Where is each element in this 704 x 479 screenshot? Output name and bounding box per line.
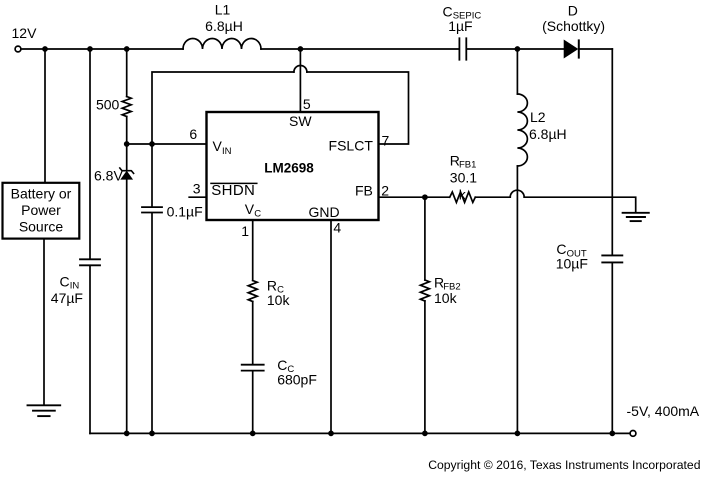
svg-text:2: 2 [381, 182, 389, 198]
label RC [267, 277, 284, 295]
value label 6.8uH for L1 [205, 18, 243, 34]
diode D (Schottky) [564, 40, 579, 57]
label (Schottky) [542, 18, 605, 34]
node label 12V [12, 25, 38, 41]
wire: hop to ground corner crossing output branch [524, 197, 636, 212]
svg-text:5: 5 [303, 96, 311, 112]
label CSEPIC [443, 4, 482, 22]
wire: top rail from diode cathode to output corner [580, 48, 613, 50]
svg-text:V: V [213, 138, 223, 154]
svg-text:1µF: 1µF [448, 18, 472, 34]
svg-text:C: C [443, 4, 453, 20]
wire: top rail junction down to L2 [516, 49, 518, 94]
pin name VIN [213, 138, 232, 157]
label L1 [215, 2, 231, 18]
svg-text:12V: 12V [12, 25, 38, 41]
pin number 7 [382, 133, 390, 149]
junction: 0.1uF branch on VIN wire [149, 141, 155, 147]
value label 1uF for CSEPIC [448, 18, 472, 34]
junction: L2 branch on bottom rail [515, 431, 521, 437]
svg-text:0.1µF: 0.1µF [167, 203, 203, 219]
pin name SW [289, 113, 312, 129]
wire: FSLCT net from pin 7 up and left to VIN branch [307, 72, 409, 144]
wire: FSLCT net left segment to corner above VIN [152, 72, 294, 144]
svg-text:C: C [60, 273, 70, 289]
svg-text:Battery or: Battery or [11, 185, 72, 201]
wire: resistor 500 to VIN junction [126, 117, 128, 145]
label RFB2 [434, 275, 461, 293]
wire: top rail from L1 to CSEPIC [261, 48, 458, 50]
junction: 0.1uF branch on bottom rail [149, 431, 155, 437]
svg-text:SHDN: SHDN [211, 182, 255, 199]
junction: zener branch on bottom rail [124, 431, 130, 437]
svg-text:6.8µH: 6.8µH [205, 18, 243, 34]
stray k glyph over RFB1 [459, 187, 467, 203]
svg-text:4: 4 [333, 219, 341, 235]
value label 30.1 [450, 169, 477, 185]
pin number 5 [303, 96, 311, 112]
svg-text:Source: Source [19, 218, 64, 234]
label COUT [556, 241, 586, 259]
battery box [3, 183, 80, 239]
junction: RFB2 tap on FB wire [422, 194, 428, 200]
pin name GND [309, 204, 340, 220]
wire: zener anode down to bottom rail [126, 179, 128, 433]
svg-text:47µF: 47µF [51, 290, 83, 306]
svg-text:(Schottky): (Schottky) [542, 18, 605, 34]
wire: VIN junction down to zener cathode [126, 144, 128, 171]
svg-text:L1: L1 [215, 2, 231, 18]
wire: FB pin 2 to RFB1 [379, 196, 450, 198]
pin number 4 [333, 219, 341, 235]
svg-text:680pF: 680pF [277, 371, 317, 387]
wire: top rail down to resistor 500 [126, 49, 128, 97]
copyright note [428, 458, 700, 472]
pin name FSLCT [329, 138, 374, 154]
value label 10k for RFB2 [434, 290, 458, 306]
svg-text:1: 1 [241, 223, 249, 239]
svg-text:SW: SW [289, 113, 312, 129]
wire: CIN down to bottom rail corner [89, 266, 91, 433]
resistor RFB2 [420, 280, 429, 301]
pin name VC [245, 201, 261, 219]
zener diode 6.8V [120, 168, 134, 179]
svg-text:C: C [254, 208, 261, 219]
wire: top rail down to CIN [89, 49, 91, 258]
pin stub: SHDN pin 3 [189, 196, 205, 198]
label CIN [60, 273, 80, 291]
junction: RFB2 branch on bottom rail [422, 431, 428, 437]
resistor RFB1 [450, 192, 476, 202]
pin number 6 [189, 126, 197, 142]
ground: output side ground [623, 213, 649, 221]
value label 47uF [51, 290, 83, 306]
capacitor CC [242, 365, 264, 371]
svg-text:3: 3 [193, 181, 201, 197]
pin name FB [355, 183, 373, 199]
value label 0.1uF [167, 203, 203, 219]
svg-text:FSLCT: FSLCT [329, 138, 374, 154]
overline of SHDN [211, 182, 257, 184]
value label 6.8uH for L2 [529, 126, 567, 142]
capacitor COUT [602, 255, 622, 262]
junction: CC branch on bottom rail [250, 431, 256, 437]
node label -5V, 400mA [627, 403, 700, 419]
wire: top rail down to battery box [44, 49, 46, 182]
pin name SHDN with overline [211, 182, 255, 199]
svg-text:6: 6 [189, 126, 197, 142]
svg-text:10µF: 10µF [556, 255, 588, 271]
svg-text:L2: L2 [530, 109, 546, 125]
wire: top rail from 12V terminal to L1 [21, 48, 183, 50]
ground: battery source ground [28, 405, 61, 416]
label Battery or Power Source [11, 185, 72, 234]
value label 680pF for CC [277, 371, 317, 387]
svg-text:10k: 10k [267, 292, 291, 308]
wire: CC down to bottom rail [252, 372, 254, 434]
svg-text:7: 7 [382, 133, 390, 149]
label CC [277, 357, 294, 375]
junction: CIN tap on top rail [87, 46, 93, 52]
wire: GND pin 4 down to bottom rail [330, 220, 332, 433]
wire: VIN pin 6 wire [127, 143, 207, 145]
value label 500 [96, 96, 120, 112]
svg-text:FB: FB [355, 183, 373, 199]
wire hop: FSLCT net over SW drop [294, 66, 307, 73]
svg-text:R: R [267, 277, 277, 293]
wire: L2 down to bottom rail passing under hop [516, 166, 518, 433]
junction: GND pin branch on bottom rail [328, 431, 334, 437]
wire: COUT down to bottom rail [611, 263, 613, 433]
junction: SW node on top rail [298, 46, 304, 52]
wire: RFB2 down to bottom rail [424, 301, 426, 433]
value label 6.8V [94, 167, 123, 183]
capacitor CSEPIC [459, 38, 466, 59]
svg-text:10k: 10k [434, 290, 458, 306]
label D [568, 2, 578, 18]
svg-text:30.1: 30.1 [450, 169, 477, 185]
resistor RC [248, 281, 257, 302]
value label 10uF for COUT [556, 255, 588, 271]
resistor 500 [122, 97, 131, 117]
wire: battery box down to ground [43, 239, 45, 405]
junction: COUT branch on bottom rail [609, 431, 615, 437]
svg-text:IN: IN [222, 146, 232, 157]
svg-text:k: k [459, 187, 467, 203]
pin number 3 [193, 181, 201, 197]
terminal: -5V output [630, 431, 636, 437]
junction: battery tap on top rail [42, 46, 48, 52]
wire: top rail from CSEPIC to diode D [467, 48, 564, 50]
wire: diode cathode corner down to COUT [611, 49, 613, 255]
wire: FSLCT corner down through VIN junction to 0.1uF [151, 144, 153, 206]
wire hop: ground wire over L2 branch [510, 190, 524, 197]
wire: FB junction down to RFB2 [424, 197, 426, 280]
wire: 0.1uF down to bottom rail [151, 213, 153, 433]
inductor L2 [517, 94, 527, 166]
wire: RFB1 to hop [475, 196, 510, 198]
wire: bottom -5V rail [90, 432, 630, 434]
label LM2698 [264, 161, 314, 176]
svg-text:6.8µH: 6.8µH [529, 126, 567, 142]
junction: L2 tap on top rail [515, 46, 521, 52]
capacitor CIN [80, 259, 100, 265]
svg-text:6.8V: 6.8V [94, 167, 123, 183]
wire: RC down to CC [252, 302, 254, 364]
terminal: 12V input [15, 46, 21, 52]
label L2 [530, 109, 546, 125]
pin number 2 [381, 182, 389, 198]
inductor L1 [183, 39, 261, 49]
svg-text:GND: GND [309, 204, 340, 220]
wire: SW node drop to pin 5 [299, 49, 301, 111]
svg-text:500: 500 [96, 96, 120, 112]
svg-text:D: D [568, 2, 578, 18]
svg-text:Copyright © 2016, Texas Instru: Copyright © 2016, Texas Instruments Inco… [428, 458, 700, 472]
svg-text:LM2698: LM2698 [264, 161, 314, 176]
svg-text:-5V, 400mA: -5V, 400mA [627, 403, 700, 419]
label RFB1 [450, 152, 477, 170]
svg-text:Power: Power [21, 202, 61, 218]
IC U1 LM2698 body [207, 112, 379, 220]
junction: zener branch on VIN wire [124, 141, 130, 147]
pin number 1 [241, 223, 249, 239]
capacitor 0.1uF [142, 207, 162, 212]
value label 10k for RC [267, 292, 291, 308]
wire: VC pin 1 down to RC [252, 220, 254, 281]
junction: 500 resistor tap on top rail [124, 46, 130, 52]
